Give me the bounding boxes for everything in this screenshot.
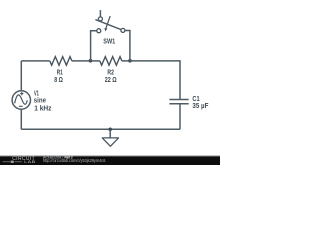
wire top-left horizontal [21, 60, 50, 62]
node C junction dot (ground) [108, 128, 112, 132]
svg-text:SW1: SW1 [103, 37, 115, 46]
node A junction dot [89, 59, 93, 63]
SW1 right terminal circle [121, 28, 125, 32]
ground [102, 129, 118, 146]
V1 minus sign [19, 105, 23, 107]
voltage source V1 [12, 88, 52, 112]
svg-text:8 Ω: 8 Ω [54, 75, 63, 84]
footer CircuitLab logo [3, 156, 36, 164]
SW1 top stub [99, 10, 101, 17]
resistor R1 [50, 57, 72, 85]
wire bottom horizontal [21, 128, 180, 130]
V1 plus sign [20, 92, 23, 95]
V1 sine wave [15, 95, 28, 104]
wire R2 to node B [122, 60, 130, 62]
SW1 actuation arrow [106, 16, 110, 28]
resistor R2 [100, 57, 122, 85]
SW1 top terminal circle [98, 17, 102, 21]
wire R1 to node A [72, 60, 91, 62]
svg-text:1 kHz: 1 kHz [34, 104, 52, 113]
wire left vertical top [20, 61, 22, 91]
V1 circle [12, 91, 30, 109]
svg-text:LAB: LAB [24, 160, 36, 164]
SW1 left terminal circle [97, 29, 101, 33]
wire left vertical bottom [20, 109, 22, 129]
switch SW1 [96, 10, 125, 46]
wire switch left branch [91, 31, 97, 61]
svg-text:http://circuitlab.com/c/y53js2: http://circuitlab.com/c/y53js29ym4c6 [43, 158, 106, 163]
wire right vertical bottom [179, 104, 181, 130]
wire node B to top-right corner and down [130, 61, 180, 100]
svg-text:22 Ω: 22 Ω [105, 75, 117, 84]
node B junction dot [128, 59, 132, 63]
capacitor C1 [169, 94, 208, 110]
svg-text:35 µF: 35 µF [192, 101, 208, 110]
wire node A to R2 [91, 60, 100, 62]
wire switch right branch [125, 31, 130, 61]
SW1 lever [96, 20, 121, 30]
